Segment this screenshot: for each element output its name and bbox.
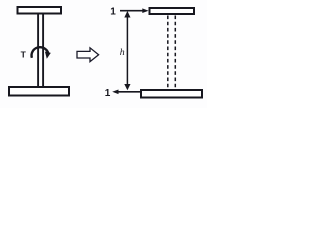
I-beam bottom flange [9,87,69,96]
implies hollow arrow [77,48,99,62]
bottom section arrowhead (left) [112,90,118,95]
dimension line h [126,13,128,89]
I-beam top flange [18,7,62,14]
top section line [120,10,144,12]
top flange plate (right diagram) [150,8,195,14]
dashed web line left [167,16,169,89]
I-beam web right line [42,14,44,86]
svg-text:T: T [21,50,27,60]
dimension arrowhead down [124,84,130,90]
top section arrowhead (right) [142,8,148,13]
dimension arrowhead up [124,11,130,18]
torque arrow arc [32,47,49,58]
dashed web line right [174,16,176,89]
bottom flange plate (right diagram) [141,90,202,98]
svg-text:1: 1 [105,88,111,99]
svg-text:h: h [120,47,125,58]
svg-text:1: 1 [110,7,116,18]
torque arrowhead [45,52,51,59]
I-beam web left line [37,14,39,86]
bottom section line [117,91,140,93]
